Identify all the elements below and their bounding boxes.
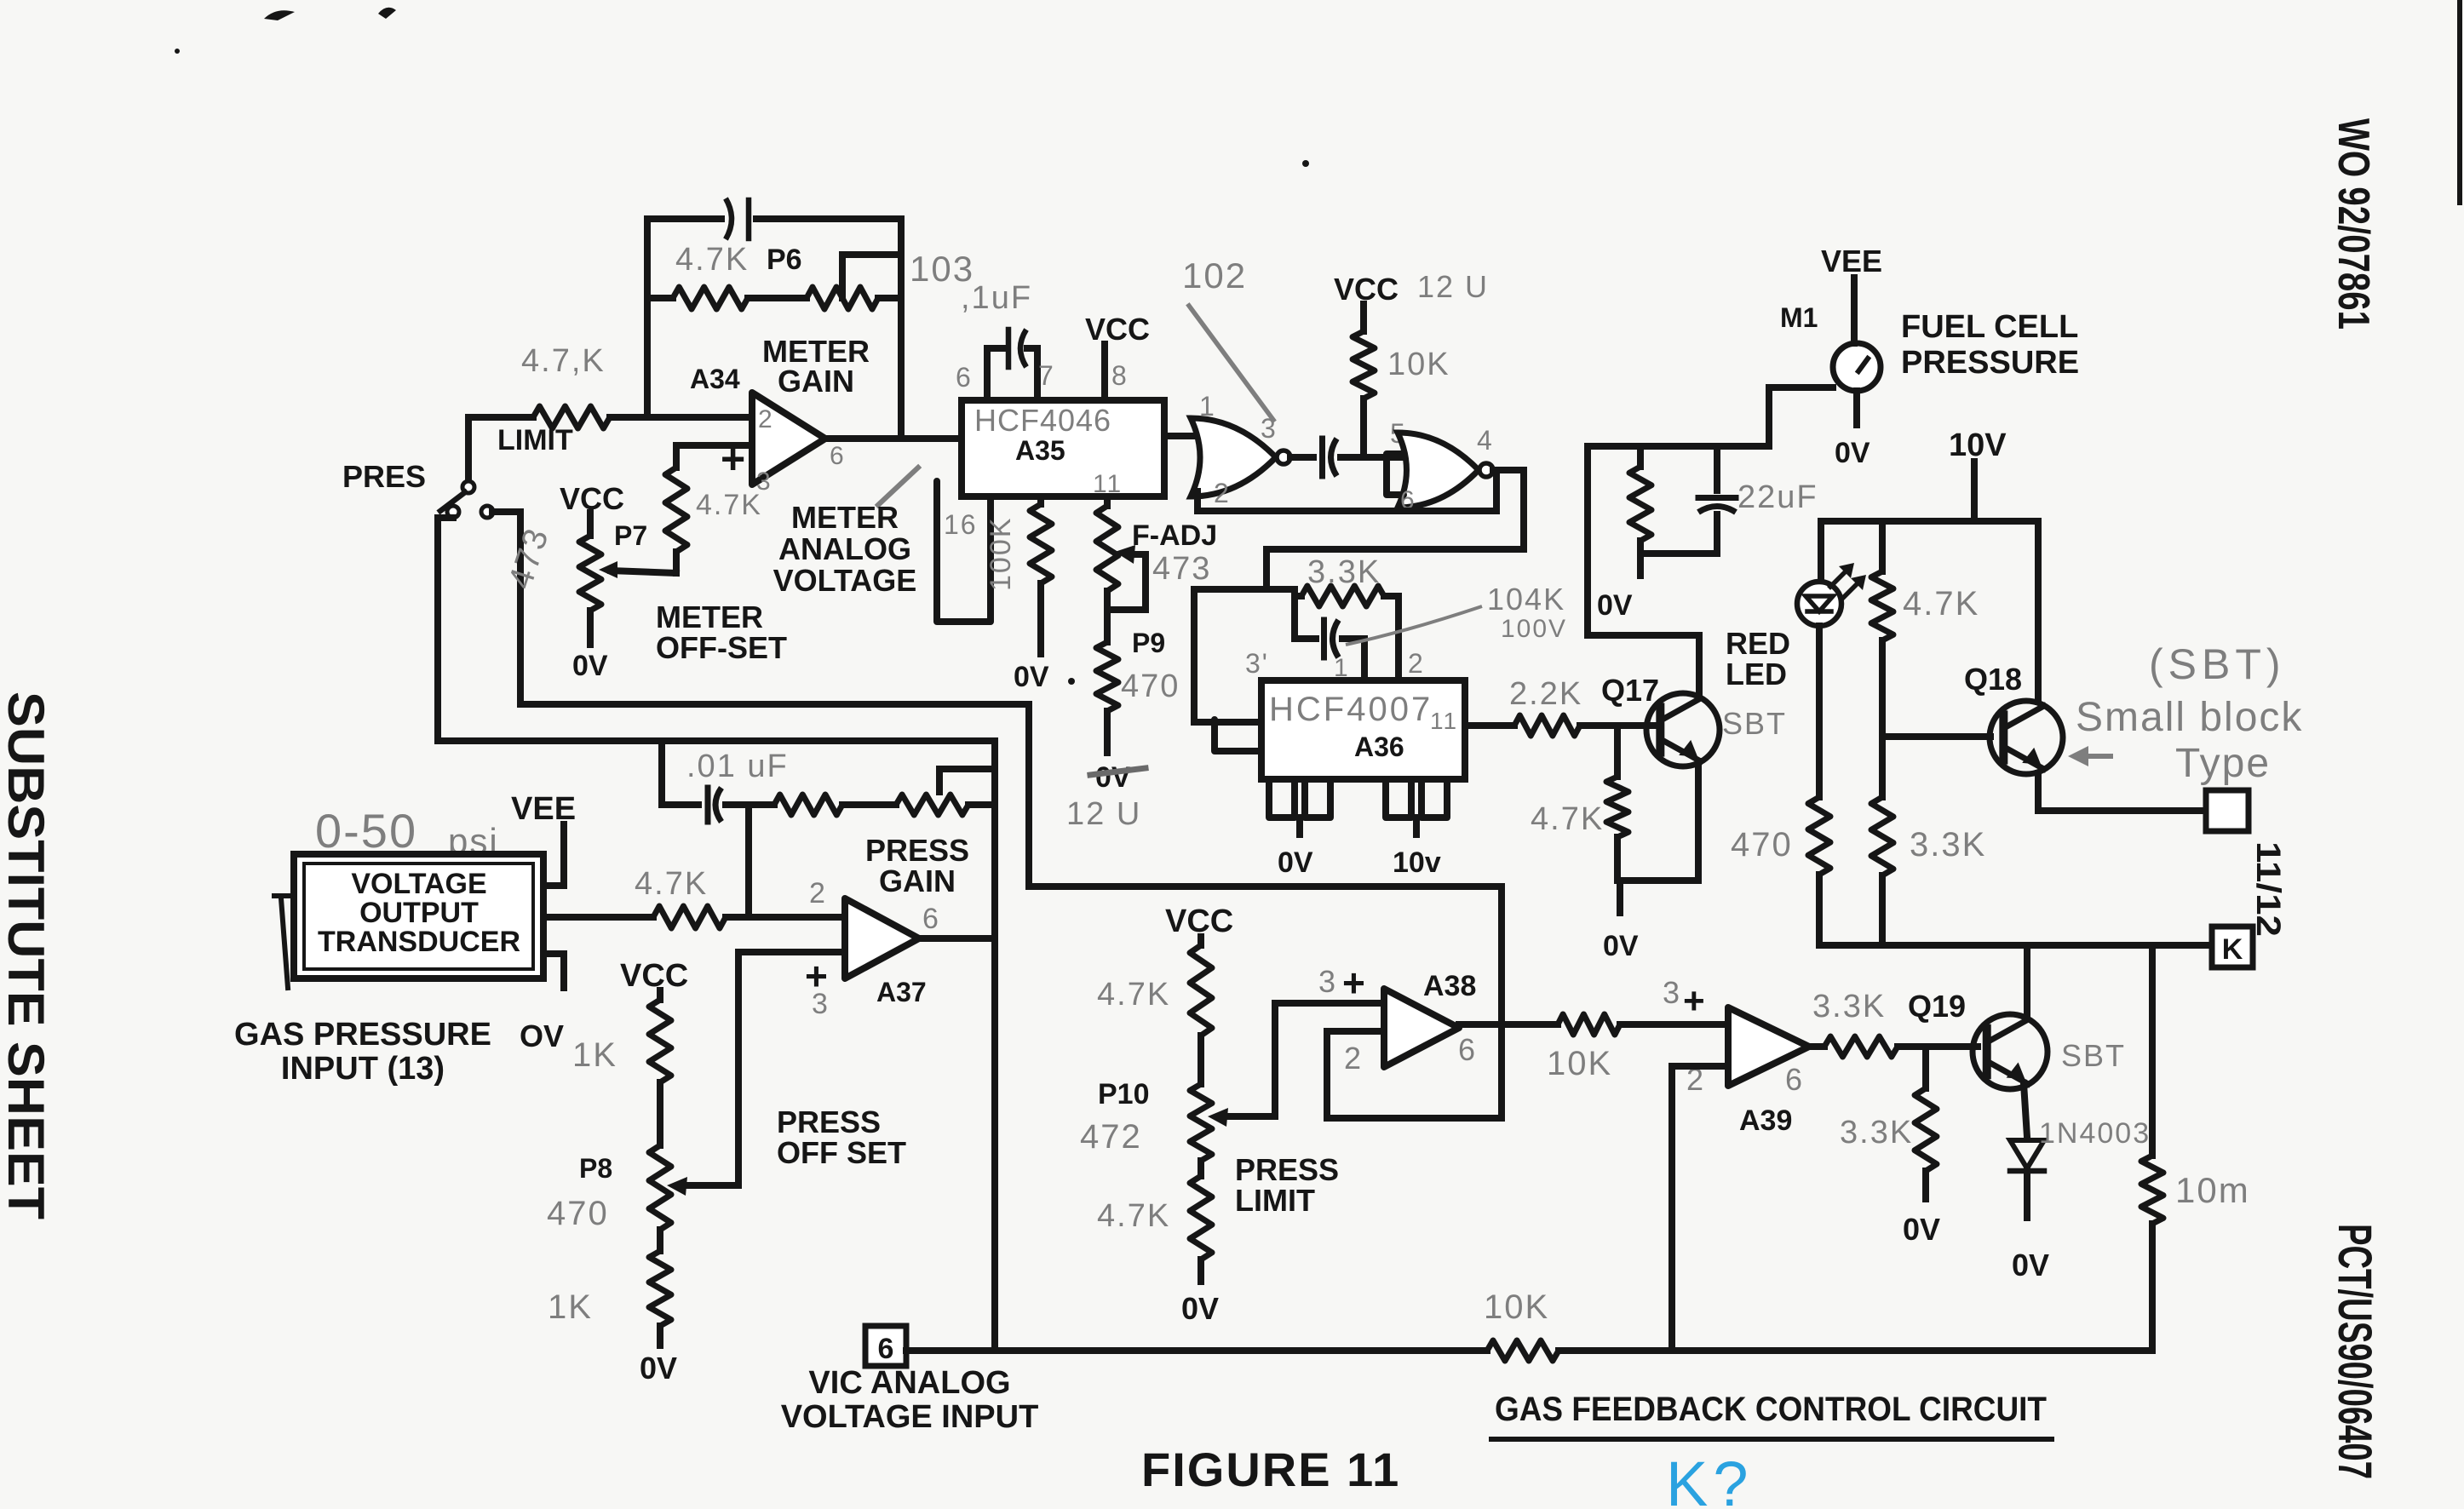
svg-text:LIMIT: LIMIT: [1235, 1183, 1315, 1218]
wire 1K to 0V: [657, 1326, 663, 1345]
wire VEE to M1: [1851, 278, 1858, 343]
label F-ADJ: [1132, 519, 1217, 552]
svg-text:METER: METER: [656, 600, 763, 634]
label VCC (A35): [1085, 312, 1150, 347]
svg-text:10V: 10V: [1949, 427, 2007, 463]
label HCF4046 (handwritten): [974, 403, 1111, 438]
svg-text:0V: 0V: [1095, 761, 1131, 794]
svg-text:PRESSURE: PRESSURE: [1901, 345, 2079, 381]
svg-text:0V: 0V: [1903, 1212, 1940, 1247]
pin label 7 (A35): [1038, 360, 1055, 391]
svg-text:OFF SET: OFF SET: [777, 1135, 906, 1170]
label 0V (P7): [572, 650, 608, 682]
svg-text:3': 3': [1245, 648, 1269, 679]
label 0V (diode): [2012, 1248, 2049, 1282]
svg-text:Q18: Q18: [1964, 662, 2022, 697]
label 10K (VIC bus): [1484, 1288, 1549, 1326]
svg-text:2: 2: [758, 405, 774, 433]
IC A35 HCF4046 box: [962, 400, 1164, 496]
svg-text:6: 6: [922, 903, 940, 935]
title GAS FEEDBACK CONTROL CIRCUIT: [1491, 1391, 2052, 1439]
potentiometer P9 upper F-ADJ: [1096, 496, 1146, 610]
svg-text:0V: 0V: [1597, 589, 1633, 622]
wire LED branch upper: [1818, 521, 1824, 582]
wire A37 +input: [738, 952, 845, 1185]
svg-text:Q19: Q19: [1908, 989, 1966, 1024]
svg-text:Small block: Small block: [2076, 695, 2303, 740]
node wire T2 (contact A to A37 output): [438, 741, 995, 769]
potentiometer P6: [807, 255, 901, 309]
svg-text:0V: 0V: [2012, 1248, 2049, 1282]
label FUEL CELL PRESSURE: [1901, 309, 2079, 381]
transistor Q18: [1990, 701, 2063, 774]
wire K bus: [1821, 942, 2210, 949]
label OV (transducer): [520, 1018, 564, 1053]
op-amp A37: [845, 898, 919, 978]
label 10K (A38 out): [1547, 1045, 1612, 1082]
label A36: [1354, 732, 1404, 762]
pin label 6 (A38): [1458, 1032, 1477, 1067]
pin label 1 (A36): [1334, 654, 1350, 682]
wire node to meter: [1588, 387, 1833, 446]
pin label 2 (A37): [809, 877, 827, 909]
svg-text:4.7K: 4.7K: [696, 489, 762, 521]
op-amp A38: [1384, 989, 1459, 1067]
resistor 3.3K (A36 feedback): [1295, 586, 1399, 606]
svg-text:VOLTAGE: VOLTAGE: [351, 868, 486, 900]
wire 10K to A39: [1620, 1021, 1728, 1028]
svg-text:10K: 10K: [1484, 1288, 1549, 1326]
wire cap to pin 1: [1361, 639, 1368, 680]
svg-text:2: 2: [1344, 1041, 1363, 1076]
svg-text:LIMIT: LIMIT: [497, 424, 573, 456]
resistor press gain 1: [774, 795, 842, 815]
svg-text:10v: 10v: [1393, 846, 1441, 879]
svg-text:2: 2: [809, 877, 827, 909]
svg-text:ANALOG: ANALOG: [778, 531, 911, 566]
pin label 6 (A39): [1785, 1062, 1804, 1097]
transistor Q17: [1646, 693, 1720, 766]
label 104K 100V and pointer: [1346, 582, 1567, 645]
label 4.7K (Q17): [1531, 801, 1604, 837]
switch PRES arm and contacts: [438, 417, 520, 518]
tied input loop gate2: [1387, 454, 1404, 495]
svg-text:11/12: 11/12: [2249, 841, 2287, 937]
label VOLTAGE OUTPUT TRANSDUCER: [318, 868, 520, 958]
svg-text:SBT: SBT: [2061, 1038, 2126, 1073]
svg-text:10K: 10K: [1547, 1045, 1612, 1082]
svg-text:3.3K: 3.3K: [1812, 989, 1886, 1024]
label 0V (RC): [1597, 589, 1633, 622]
wire 10V down: [1971, 462, 1978, 521]
svg-text:2: 2: [1214, 478, 1231, 508]
wire A39 output: [1809, 1043, 1824, 1050]
label 102 and pointer line: [1182, 255, 1273, 420]
svg-text:0V: 0V: [1278, 846, 1313, 879]
svg-text:3: 3: [812, 988, 830, 1020]
plus symbol A37: [805, 954, 828, 998]
pin label 11 (A36): [1430, 708, 1458, 734]
label P9: [1132, 628, 1165, 658]
wire gate1 out to capacitor: [1290, 454, 1313, 461]
wire capacitor to gate2 pin5: [1341, 454, 1404, 461]
svg-text:3: 3: [1318, 964, 1337, 999]
capacitor 102 (between gates): [1323, 439, 1337, 476]
handwritten blue note K?: [1666, 1449, 1754, 1509]
wire P10 to 4.7K lower: [1198, 1161, 1204, 1176]
svg-text:(SBT): (SBT): [2149, 640, 2286, 688]
pin label 3 (A37): [812, 988, 830, 1020]
svg-text:GAS PRESSURE: GAS PRESSURE: [234, 1017, 491, 1053]
pin label 6 (A34): [830, 442, 846, 470]
label 472 (P10): [1080, 1118, 1142, 1156]
svg-text:473: 473: [1152, 551, 1211, 587]
label M1: [1780, 302, 1818, 333]
label A34: [690, 364, 740, 394]
potentiometer press gain 2: [896, 769, 995, 815]
svg-text:104K: 104K: [1487, 582, 1565, 617]
wire cap to resistor: [726, 801, 774, 808]
wire LIMIT input to A34 inverting: [468, 414, 752, 421]
pin 8 wire VCC (A35): [1101, 344, 1108, 400]
svg-text:0-50: 0-50: [315, 804, 417, 858]
A36 bottom pin stubs left: [1269, 779, 1330, 835]
potentiometer P8 470: [649, 1145, 738, 1230]
pin label 5 (gate2): [1390, 418, 1407, 449]
wire down to A36 pin3: [1194, 589, 1295, 722]
resistor 1K lower: [649, 1251, 671, 1326]
wire A35 output to gate pin1: [1164, 433, 1192, 439]
label 4.7,K (limit resistor): [521, 343, 606, 379]
wire A34 noninverting input: [676, 445, 752, 468]
svg-text:F-ADJ: F-ADJ: [1132, 519, 1217, 552]
svg-text:P10: P10: [1098, 1078, 1150, 1110]
resistor 470 (LED): [1808, 797, 1830, 875]
wire 3.3K right down to pin2: [1395, 596, 1402, 680]
transducer box: [294, 854, 543, 978]
IC A36 HCF4007 box: [1261, 680, 1465, 779]
wire between press gain resistors: [842, 801, 896, 808]
svg-text:A36: A36: [1354, 732, 1404, 762]
svg-text:6: 6: [956, 362, 973, 393]
svg-text:11: 11: [1430, 708, 1458, 734]
label VCC (A38): [1165, 904, 1233, 939]
label 4.7K (P6 row): [675, 242, 749, 278]
svg-text:INPUT (13): INPUT (13): [281, 1051, 445, 1087]
wire VCC to 10K: [1360, 304, 1367, 331]
label P10: [1098, 1078, 1150, 1110]
wire Q19 emitter to diode: [2024, 1083, 2027, 1137]
svg-text:P6: P6: [767, 244, 802, 276]
svg-text:3: 3: [1663, 975, 1681, 1010]
capacitor pins 6-7 (A35): [1008, 330, 1026, 367]
resistor 4.7K (transducer): [653, 906, 726, 928]
op-amp A34: [752, 393, 825, 485]
sheet number 11/12 (right margin middle): [2249, 841, 2287, 937]
press-gain feedback: cap branch: [662, 741, 698, 805]
svg-text:4.7K: 4.7K: [1903, 585, 1979, 623]
label VEE (transducer): [511, 791, 576, 827]
svg-text:,1uF: ,1uF: [961, 280, 1032, 316]
svg-text:4.7K: 4.7K: [1097, 1198, 1170, 1234]
svg-text:4.7K: 4.7K: [675, 242, 749, 278]
svg-text:4.7K: 4.7K: [635, 866, 708, 902]
svg-text:LED: LED: [1726, 657, 1787, 691]
pin 6 wire (A35 top): [987, 348, 1003, 400]
LED red: [1797, 582, 1841, 626]
svg-text:SBT: SBT: [1722, 706, 1787, 741]
pin label 2 (A36): [1408, 648, 1425, 679]
label 12 U handwritten: [1066, 796, 1141, 832]
resistor 4.7K upper (A38): [1190, 945, 1212, 1036]
wire A38 pin2 loop: [1327, 1031, 1502, 1118]
resistor 10K (A38 out): [1558, 1014, 1620, 1035]
svg-text:VCC: VCC: [620, 958, 688, 994]
wire A34 output to A35: [825, 435, 962, 442]
pin label 3' (A36): [1245, 648, 1269, 679]
label 473 (P7) rotated: [502, 523, 556, 594]
pin label 6 (A37): [922, 903, 940, 935]
svg-text:472: 472: [1080, 1118, 1142, 1156]
svg-text:VCC: VCC: [1085, 312, 1150, 347]
svg-text:0V: 0V: [1181, 1291, 1219, 1326]
label A37: [876, 977, 927, 1007]
terminal square (Q18 emitter): [2206, 790, 2249, 831]
wire VCC to 1K: [657, 990, 663, 1000]
capacitor 104K 100V (A36 feedback): [1295, 620, 1364, 657]
label PRES: [342, 459, 426, 494]
label 12 U (VCC 10K): [1417, 269, 1489, 304]
svg-text:P7: P7: [614, 520, 647, 551]
wire P9 to 0V: [1104, 711, 1111, 753]
meter M1: [1833, 343, 1881, 391]
label (SBT) handwritten: [2149, 640, 2286, 688]
wiper arrow P7: [599, 561, 617, 578]
svg-text:OV: OV: [520, 1018, 564, 1053]
wire P9 middle: [1104, 591, 1111, 642]
pin 7 wire (A35 top): [1027, 348, 1037, 400]
label 1K (lower): [548, 1288, 593, 1326]
label VCC (P7): [560, 481, 624, 516]
wire transducer output: [543, 914, 653, 921]
pin label 1 (gate1): [1199, 391, 1216, 422]
svg-text:OUTPUT: OUTPUT: [359, 897, 479, 929]
wire 470 to bus: [1816, 875, 1823, 945]
svg-text:12 U: 12 U: [1066, 796, 1141, 832]
svg-text:470: 470: [1121, 668, 1180, 704]
handwritten slash mark: [878, 468, 918, 505]
svg-text:10K: 10K: [1387, 347, 1450, 382]
svg-text:0V: 0V: [572, 650, 608, 682]
label 10v (A36 pin): [1393, 846, 1441, 879]
plus symbol A38: [1342, 961, 1365, 1005]
wire 3.3K to Q19 base: [1898, 1043, 1978, 1050]
pin label 2 (A34): [758, 405, 774, 433]
wire 3.3K loop left: [1291, 589, 1298, 639]
pin label 3 (A34): [756, 468, 773, 496]
label A38: [1423, 970, 1476, 1002]
svg-text:2: 2: [1408, 648, 1425, 679]
label VEE (M1): [1821, 244, 1882, 278]
svg-text:TRANSDUCER: TRANSDUCER: [318, 926, 520, 958]
NOR gate 1: [1191, 418, 1290, 496]
wire 4.7K to P7 wiper: [611, 552, 676, 573]
wire M1 to 0V: [1853, 391, 1860, 425]
label 470 (P9): [1121, 668, 1180, 704]
label 4.7K (Q18): [1903, 585, 1979, 623]
svg-text:0V: 0V: [1014, 661, 1049, 693]
label RED LED: [1726, 626, 1790, 691]
resistor 4.7K (A34 feedback): [673, 287, 748, 309]
wire bus down to 10m: [2149, 945, 2156, 1156]
op-amp A39: [1728, 1007, 1809, 1086]
label LIMIT: [497, 424, 573, 456]
label 470 (P8): [547, 1195, 609, 1232]
resistor 2.2K: [1514, 715, 1580, 736]
plus symbol A39: [1683, 980, 1705, 1022]
label 473 (F-ADJ): [1152, 551, 1211, 587]
label METER OFF-SET: [656, 600, 787, 665]
svg-text:VOLTAGE: VOLTAGE: [773, 563, 917, 598]
stray scan marks top edge: [175, 8, 1309, 167]
svg-text:HCF4007: HCF4007: [1269, 691, 1433, 728]
wire 1K to P8: [657, 1082, 663, 1145]
svg-text:A34: A34: [690, 364, 740, 394]
svg-text:OFF-SET: OFF-SET: [656, 630, 787, 665]
svg-text:PRESS: PRESS: [777, 1104, 881, 1139]
wire switch contact A down-left: [434, 518, 441, 741]
svg-text:1K: 1K: [548, 1288, 593, 1326]
svg-text:4.7,K: 4.7,K: [521, 343, 606, 379]
capacitor 103 .1uF (A34 feedback, top): [726, 198, 749, 239]
label PRESS LIMIT: [1235, 1152, 1339, 1218]
label 0V (M1): [1835, 437, 1870, 469]
svg-text:Q17: Q17: [1601, 673, 1659, 708]
wire to A37 inverting: [726, 914, 845, 921]
label 2.2K: [1509, 676, 1582, 712]
svg-text:Type: Type: [2175, 741, 2271, 786]
svg-text:GAIN: GAIN: [778, 364, 854, 399]
label 3.3K (Q18): [1910, 826, 1986, 864]
label HCF4007 (handwritten): [1269, 691, 1433, 728]
caption FIGURE 11: [1141, 1443, 1400, 1496]
svg-text:M1: M1: [1780, 302, 1818, 333]
label P7: [614, 520, 647, 551]
label 3.3K (A39 out): [1812, 989, 1886, 1024]
label .01 uF: [686, 749, 789, 784]
resistor 10m: [2141, 1156, 2163, 1224]
wire Q17 collector up: [1588, 446, 1699, 694]
resistor 4.7K (Q17 base to 0V): [1606, 726, 1628, 881]
plus symbol A34: [721, 435, 745, 483]
label Small block Type: [2076, 695, 2303, 786]
svg-text:6: 6: [830, 442, 846, 470]
patent number WO 92/07861 (right margin top): [2329, 118, 2378, 330]
wire bus down to Q19 collector: [2024, 945, 2030, 1015]
svg-text:METER: METER: [791, 500, 899, 535]
svg-text:K: K: [2222, 933, 2243, 966]
wire Q17 emitter to 0V: [1617, 761, 1698, 913]
svg-text:22uF: 22uF: [1737, 479, 1818, 515]
wire 3.3K to bus: [1879, 875, 1886, 945]
svg-text:0V: 0V: [1603, 930, 1639, 962]
label 4.7K (A38 lower): [1097, 1198, 1170, 1234]
label 0V (A36 pin): [1278, 846, 1313, 879]
label 0-50 psi: [315, 804, 499, 861]
label 3.3K (A36 feedback): [1307, 554, 1381, 590]
svg-text:6: 6: [1458, 1032, 1477, 1067]
resistor P9 470 lower: [1096, 642, 1118, 711]
wire 2.2K to Q17 base: [1580, 722, 1660, 729]
arrow to Q18: [2068, 746, 2111, 766]
svg-text:12 U: 12 U: [1417, 269, 1489, 304]
svg-text:P8: P8: [579, 1153, 612, 1184]
label 10V: [1949, 427, 2007, 463]
label 10m: [2175, 1170, 2250, 1210]
wire 10m bottom: [2149, 1224, 2156, 1351]
pin label 11 (A35): [1093, 470, 1123, 498]
label Q18: [1964, 662, 2022, 697]
label VCC (10K): [1334, 272, 1399, 307]
svg-text:WO 92/07861: WO 92/07861: [2329, 118, 2378, 330]
pin label 2 (A38): [1344, 1041, 1363, 1076]
svg-text:K?: K?: [1666, 1449, 1754, 1509]
label A35: [1015, 435, 1065, 466]
label GAS PRESSURE INPUT (13): [234, 1017, 491, 1087]
resistor 10K (VIC bus): [1487, 1340, 1559, 1361]
svg-text:4: 4: [1477, 425, 1494, 456]
label METER GAIN: [762, 334, 870, 399]
terminal box K: [2212, 927, 2253, 967]
label 0V (P8 chain): [640, 1351, 677, 1386]
terminal box 6 (VIC input): [865, 1326, 906, 1366]
capacitor 22uF: [1698, 446, 1736, 554]
wire P6 resistor row: [647, 295, 901, 301]
pin 16 tab (A35): [937, 481, 991, 622]
svg-text:.01 uF: .01 uF: [686, 749, 789, 784]
svg-text:HCF4046: HCF4046: [974, 403, 1111, 438]
wire gate2 out down to A36 net: [1266, 470, 1524, 589]
wire A39 pin2 loop: [1672, 1066, 1728, 1351]
resistor 3.3K (A39 out): [1824, 1036, 1898, 1057]
pin label 2 (A39): [1686, 1062, 1705, 1097]
transducer input ticks: [274, 896, 294, 988]
capacitor .01uF: [708, 788, 721, 822]
label 4.7K (A34 +input): [696, 489, 762, 521]
label VCC (P8 chain): [620, 958, 688, 994]
wire VCC to P7: [587, 513, 594, 536]
label 1N4003: [2039, 1117, 2151, 1150]
feedback box around P6 (A34): [647, 219, 901, 434]
label 0V (100K): [1014, 661, 1075, 693]
pin label 6 (gate2): [1400, 486, 1416, 514]
wire A37 output: [919, 935, 995, 942]
resistor 1K upper: [649, 1000, 671, 1082]
wire Q18 collector: [2035, 521, 2042, 702]
wire VCC to 4.7K (A38): [1198, 937, 1204, 945]
label 0V (3.3K): [1903, 1212, 1940, 1247]
label 100K rotated: [985, 517, 1017, 591]
svg-text:PRES: PRES: [342, 459, 426, 494]
wire switch contact B down: [517, 512, 524, 704]
svg-text:GAIN: GAIN: [879, 864, 956, 898]
svg-text:+: +: [1342, 961, 1365, 1005]
svg-text:1N4003: 1N4003: [2039, 1117, 2151, 1150]
svg-text:0V: 0V: [640, 1351, 677, 1386]
wire 4.7K to base node: [1879, 640, 1886, 797]
resistor 4.7K (Q18): [1871, 571, 1893, 640]
pin label 16 (A35): [944, 509, 978, 540]
